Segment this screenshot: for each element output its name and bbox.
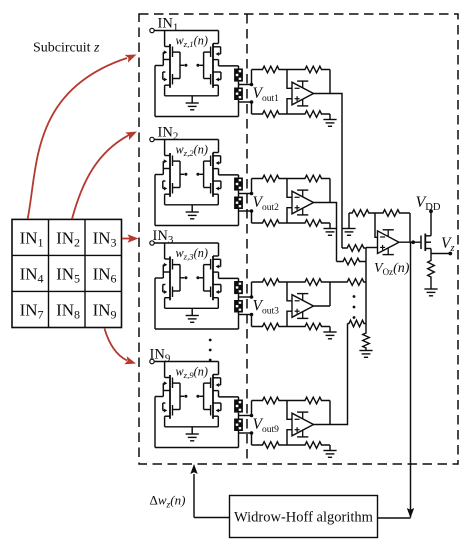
wire tap to amplifier (lower) [239,100,254,104]
node VDD terminal [429,209,433,213]
wire summing junction bus [365,248,367,332]
ellipsis dots between IN3 and IN9 blocks [209,339,212,362]
wire non-inverting input stage 9 [287,430,292,445]
wire right gate bus [203,52,205,78]
inner dashed partition line [246,14,248,464]
wire input rail IN1 [154,30,218,32]
resistor to ground stage 9 [287,442,330,449]
ellipsis dots between summing rows [353,295,356,319]
op-amp A2 [292,190,314,215]
wire memristor link [238,413,240,419]
red arrow from IN3 to subcircuit input 3 [122,238,130,240]
Widrow-Hoff algorithm box [230,496,378,538]
wire non-inverting input of summing op-amp [366,247,378,249]
wire memristor link [238,191,240,197]
resistor input lower stage 1 [252,111,288,118]
memristor W1b [234,88,243,101]
wire bottom rail [155,225,239,227]
wire upper input branch stage 9 [251,401,253,416]
svg-text:Widrow-Hoff algorithm: Widrow-Hoff algorithm [234,510,374,526]
wire source rail [165,307,219,309]
transistor M2d (right bottom) [204,181,221,205]
transistor M2a (left top) [163,140,180,197]
ground of stage 1 [323,114,336,126]
resistor inverting to ground (summing) [349,210,375,217]
op-amp A10 summing [378,230,400,255]
wire inverting input stage 3 [287,282,292,301]
wire feedback to output stage 3 [329,282,331,306]
node IN1 input terminal [150,28,154,32]
wire inverting input (summing) [375,213,378,237]
node right gate tap [196,276,199,279]
resistor input lower stage 3 [252,323,288,330]
wire right tap to memristors [219,391,239,400]
wire memristor bottom [238,313,240,330]
subcircuit dashed boundary box [139,14,458,464]
wire summing output to transistor gate [400,240,422,244]
wire feedback to output stage 2 [329,179,331,203]
resistor to ground stage 2 [287,220,330,227]
resistor input upper stage 3 [252,279,288,286]
wire source rail [165,95,219,97]
transistor M9b (left bottom) [163,403,180,427]
transistor M1b (left bottom) [163,72,180,96]
arrow delta-w into subcircuit [190,464,197,474]
transistor M3d (right bottom) [204,285,221,309]
wire algorithm box to feedback node [378,517,411,519]
resistor input lower stage 9 [252,442,288,449]
resistor summing row 9 [348,320,367,327]
wire lower input branch stage 1 [251,102,253,114]
transistor M9d (right bottom) [204,403,221,427]
wire tap to amplifier (upper) [239,192,254,196]
resistor to ground stage 1 [287,111,330,118]
memristor W9b [234,419,243,432]
op-amp A9 [292,412,314,437]
resistor summing row 1 [342,245,366,252]
node left gate tap [180,173,184,175]
ground of block IN9 [186,427,199,441]
wire tap to amplifier (lower) [239,209,254,213]
transistor M9c (right top) [204,362,221,419]
resistor input upper stage 2 [252,175,288,182]
wire output stage 9 to summing bus [314,324,348,425]
node right gate tap [196,395,199,398]
resistor summing node to ground [363,331,370,350]
node IN9 input terminal [150,359,154,363]
memristor W2b [234,197,243,210]
wire non-inverting input stage 1 [287,99,292,114]
wire right tap to memristors [219,60,239,69]
wire lower input branch stage 2 [251,211,253,223]
resistor input upper stage 9 [252,397,288,404]
wire memristor link [238,82,240,88]
memristor W1a [234,69,243,82]
resistor source load [428,254,435,290]
transistor M3b (left bottom) [163,285,180,309]
wire output stage 1 to summing bus [314,94,343,249]
wire inverting input stage 2 [287,179,292,198]
wire output stage 2 to summing bus [314,203,337,262]
wire tap to amplifier (lower) [239,431,254,435]
wire tap to amplifier (upper) [239,83,254,87]
red arrow from IN1 to subcircuit input 1 [28,58,127,219]
node IN3 input terminal [150,241,154,245]
resistor feedback stage 2 [287,175,330,182]
wire source rail [165,204,219,206]
wire Vz feedback down to algorithm [410,242,412,517]
ground of block IN2 [186,205,199,219]
ground of source load [424,289,437,296]
svg-text:Subcircuit z: Subcircuit z [33,41,100,56]
resistor input upper stage 1 [252,66,288,73]
transistor M2c (right top) [204,140,221,197]
wire left gate bus [179,383,181,409]
transistor M9a (left top) [163,362,180,419]
wire left gate bus [179,161,181,187]
resistor feedback stage 1 [287,66,330,73]
ground of summing node [359,351,372,358]
node left gate tap [180,395,184,397]
wire right tap to memristors [219,272,239,281]
wire right gate bus [203,161,205,187]
wire upper input branch stage 2 [251,179,253,194]
red arrow from IN2 to subcircuit input 2 [72,135,129,219]
op-amp A1 [292,81,314,106]
wire bottom rail [155,328,239,330]
wire lower input branch stage 3 [251,315,253,327]
resistor feedback stage 9 [287,397,330,404]
transistor M3c (right top) [204,243,221,300]
wire memristor bottom [238,100,240,117]
wire right tap to memristors [219,169,239,178]
memristor W3b [234,300,243,313]
wire bottom rail [155,116,239,118]
wire lower input branch stage 9 [251,433,253,445]
wire feedback to output stage 1 [329,70,331,94]
wire left return [155,169,163,226]
resistor feedback (summing) [375,210,410,217]
wire memristor bottom [238,431,240,448]
memristor W2a [234,178,243,191]
transistor M2b (left bottom) [163,181,180,205]
resistor feedback stage 3 [287,279,330,286]
wire left return [155,391,163,448]
resistor summing row 3 [330,279,366,286]
wire tap to amplifier (lower) [239,313,254,317]
ground of block IN1 [186,96,199,110]
wire memristor link [238,294,240,300]
wire bottom rail [155,447,239,449]
resistor to ground stage 3 [287,323,330,330]
wire left return [155,272,163,329]
node IN2 input terminal [150,137,154,141]
wire input rail IN2 [154,139,218,141]
transistor M1c (right top) [204,31,221,88]
node right gate tap [196,173,199,176]
node left gate tap [180,277,184,279]
wire delta-w output of algorithm [194,474,230,518]
wire right gate bus [203,265,205,291]
wire inverting input stage 1 [287,70,292,89]
wire source rail [165,426,219,428]
transistor M3a (left top) [163,243,180,300]
ground of summing inverting resistor [342,213,355,235]
node right gate tap [196,64,199,67]
wire feedback to output (summing) [409,213,411,242]
ground of stage 3 [323,327,336,339]
wire inverting input stage 9 [287,401,292,420]
memristor W9a [234,400,243,413]
wire output stage 3 [314,305,331,307]
wire upper input branch stage 1 [251,70,253,85]
wire left gate bus [179,265,181,291]
resistor summing row 2 [337,258,367,265]
transistor M1a (left top) [163,31,180,88]
resistor input lower stage 2 [252,220,288,227]
wire tap to amplifier (upper) [239,414,254,418]
ground of stage 2 [323,223,336,235]
node left gate tap [180,64,184,66]
wire tap to amplifier (upper) [239,295,254,299]
wire drain to VDD [430,213,432,236]
op-amp A3 [292,294,314,319]
red arrow from IN9 to subcircuit input 9 [105,329,128,361]
input table IN1-IN9 [12,219,122,327]
node Vz terminal [448,252,452,256]
wire source to Vz [431,249,449,254]
wire input rail IN9 [154,361,218,363]
wire memristor bottom [238,209,240,226]
wire feedback to output stage 9 [329,401,331,425]
transistor Q1 output follower [421,234,431,252]
wire upper input branch stage 3 [251,282,253,297]
transistor M1d (right bottom) [204,72,221,96]
wire non-inverting input stage 2 [287,208,292,223]
arrow into algorithm input [407,508,414,518]
ground of block IN3 [186,308,199,322]
wire left gate bus [179,52,181,78]
wire non-inverting input stage 3 [287,311,292,326]
wire right gate bus [203,383,205,409]
wire input rail IN3 [154,242,218,244]
memristor W3a [234,281,243,294]
ground of stage 9 [323,445,336,457]
wire left return [155,60,163,117]
